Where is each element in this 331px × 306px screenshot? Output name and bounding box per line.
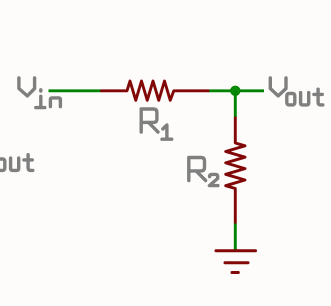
junction node bbox=[231, 86, 240, 95]
label R2 bbox=[189, 158, 218, 186]
wire Vin to R1 bbox=[49, 89, 102, 92]
net label Vout bbox=[270, 78, 323, 105]
ground bbox=[216, 251, 256, 273]
wire R1 to node bbox=[209, 89, 264, 92]
resistor R2 bbox=[226, 118, 245, 224]
net label Vout (cropped at left edge) bbox=[0, 155, 33, 171]
wire node to R2 bbox=[234, 91, 237, 118]
resistor R1 bbox=[102, 81, 210, 100]
label R1 bbox=[141, 109, 172, 139]
wire R2 to ground bbox=[234, 224, 237, 251]
net label Vin bbox=[19, 78, 61, 108]
